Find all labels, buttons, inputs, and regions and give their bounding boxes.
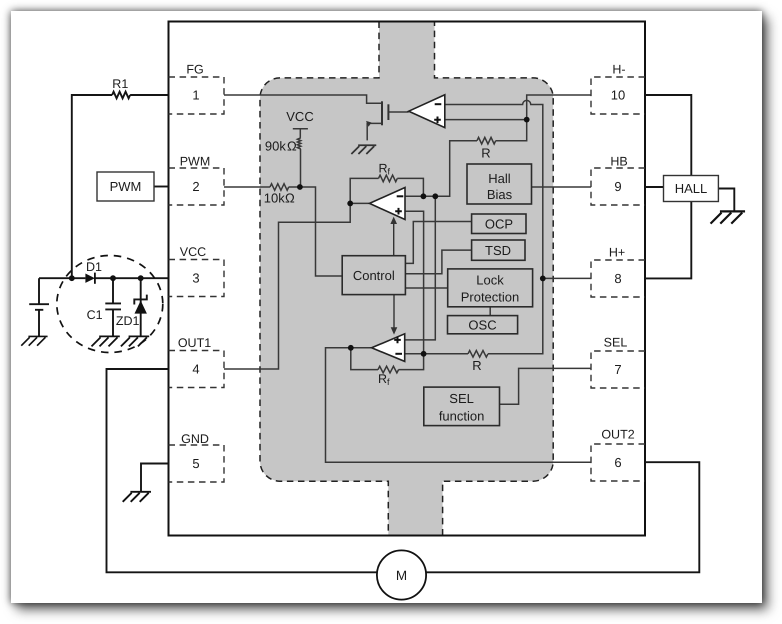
wire Control to OCP [405, 222, 471, 264]
ground (battery) [21, 336, 47, 345]
svg-text:H+: H+ [609, 246, 625, 260]
svg-text:D1: D1 [86, 260, 102, 274]
wire U2 output to OUT1 pin4 [224, 203, 370, 369]
node: H- / U1 plus [524, 117, 530, 123]
pin 2 PWM [169, 155, 225, 206]
svg-text:9: 9 [614, 179, 621, 194]
wire SEL function to pin 7 [500, 368, 592, 404]
node: U2 output [347, 201, 353, 207]
wire U1 plus input to H- node [445, 119, 527, 121]
SEL function block [424, 387, 500, 426]
svg-text:HB: HB [610, 155, 627, 169]
zener ZD1 triangle [135, 301, 147, 314]
resistor 10kohm [270, 184, 289, 191]
OCP block [472, 214, 526, 234]
wire R1 down to VCC rail [72, 95, 112, 278]
svg-text:GND: GND [181, 432, 209, 446]
op-amp U3 (output amp 2) [372, 334, 405, 362]
svg-text:VCC: VCC [180, 245, 206, 259]
wire 90k to junction [300, 149, 302, 187]
internal circuitry region (gray die area) [260, 22, 553, 536]
svg-text:OUT2: OUT2 [601, 428, 634, 442]
wire pin4 OUT1 to motor (left loop) [107, 369, 377, 572]
svg-text:VCC: VCC [286, 109, 313, 124]
wire R to U2 minus node [405, 141, 477, 197]
wire Control to Lock Protection [405, 287, 447, 289]
node: U3 output [348, 345, 354, 351]
wire Hall Bias to pin 9 [532, 186, 592, 188]
pin 9 HB [591, 155, 645, 206]
wire FET source to ground [367, 123, 382, 140]
svg-text:Protection: Protection [461, 290, 520, 305]
diode D1 [85, 273, 95, 284]
wire pin1 to R1 [130, 94, 168, 96]
svg-text:M: M [396, 568, 407, 583]
IC package outline [169, 22, 646, 536]
capacitor C1 [105, 278, 121, 336]
wire pin8 H+ to HALL bottom [645, 202, 691, 279]
pin 10 H- [591, 63, 645, 115]
transistor Q1 (FG open-drain FET) [366, 101, 388, 127]
wire VCC rail [39, 277, 169, 279]
svg-text:10k: 10k [264, 191, 285, 206]
op-amp U2 (output amp 1) [370, 188, 406, 220]
wire U2 plus input down to U3 minus node and Rf [399, 211, 424, 369]
wire H+ node to pin 8 [543, 277, 591, 279]
svg-text:Ω: Ω [285, 191, 295, 206]
svg-text:R: R [472, 358, 481, 373]
svg-text:PWM: PWM [180, 155, 211, 169]
node: U2 minus branch [432, 193, 438, 199]
svg-text:Ω: Ω [287, 139, 297, 154]
wire pin10 H- down to plus node and R [496, 95, 591, 141]
HALL sensor box [664, 176, 719, 202]
wire pin9 to HALL [645, 186, 664, 188]
wire U3 output to OUT2 pin6 [326, 348, 592, 462]
svg-text:function: function [439, 409, 485, 424]
svg-text:Control: Control [353, 268, 395, 283]
wire pin2 to 10k [224, 186, 270, 188]
svg-text:1: 1 [192, 88, 199, 103]
VCC terminal [293, 129, 308, 138]
node: 10k/90k junction [297, 184, 303, 190]
node: C1 junction [110, 275, 116, 281]
pin 3 VCC [169, 245, 225, 297]
TSD block [472, 240, 525, 260]
svg-text:4: 4 [192, 362, 199, 377]
svg-text:90k: 90k [265, 139, 286, 154]
pin 5 GND [169, 432, 225, 482]
svg-text:7: 7 [614, 362, 621, 377]
svg-text:R: R [481, 146, 490, 161]
svg-text:Bias: Bias [487, 187, 513, 202]
pin 4 OUT1 [169, 336, 225, 388]
svg-text:Lock: Lock [476, 273, 504, 288]
svg-text:OUT1: OUT1 [178, 336, 211, 350]
ground (HALL) [711, 211, 746, 223]
svg-text:H-: H- [612, 63, 625, 77]
wire PWM box to pin2 [154, 186, 169, 188]
wire pin6 OUT2 to motor (right loop) [426, 462, 699, 572]
svg-text:ZD1: ZD1 [116, 314, 140, 328]
OSC block [448, 316, 518, 334]
wire 10k junction to Control [289, 187, 343, 276]
svg-text:10: 10 [611, 88, 625, 103]
wire Lock Protection to OSC [489, 307, 491, 316]
motor M [377, 550, 426, 599]
pin 6 OUT2 [591, 428, 645, 482]
wire pin10 H- to HALL top [645, 95, 691, 176]
svg-text:8: 8 [614, 271, 621, 286]
control arrow to U3 [393, 295, 395, 328]
control arrow to U2 [390, 217, 397, 335]
dashed circle around D1/C1/ZD1 [57, 256, 163, 353]
svg-text:SEL: SEL [449, 391, 474, 406]
resistor R1 [112, 92, 130, 99]
wire Rf to U3 output node [351, 348, 378, 370]
Control block [342, 256, 405, 295]
wire U2 minus node down to U3 plus input [405, 196, 436, 340]
resistor 90kohm [297, 138, 300, 149]
svg-text:OSC: OSC [468, 318, 496, 333]
ground (C1) [92, 336, 120, 346]
svg-text:R1: R1 [112, 77, 128, 91]
svg-text:3: 3 [192, 271, 199, 286]
svg-text:5: 5 [192, 456, 199, 471]
battery/supply capacitor [29, 278, 49, 336]
wire Control to TSD [405, 250, 471, 274]
svg-text:PWM: PWM [110, 179, 142, 194]
wire pin5 GND to ground [141, 464, 169, 492]
pin 8 H+ [591, 246, 645, 298]
node: R1/VCC rail junction [69, 275, 75, 281]
pin 1 FG [169, 63, 225, 115]
wire Rf top feedback loop [350, 178, 423, 203]
resistor R (bottom, to U3 minus) [468, 351, 488, 358]
Lock Protection block [448, 269, 533, 307]
PWM source box [97, 172, 154, 201]
pin 7 SEL [591, 336, 645, 389]
svg-text:Hall: Hall [488, 171, 511, 186]
svg-text:FG: FG [186, 63, 203, 77]
svg-text:2: 2 [192, 179, 199, 194]
Hall Bias block [467, 164, 532, 204]
node: ZD1 junction [138, 275, 144, 281]
svg-text:C1: C1 [87, 308, 103, 322]
svg-text:6: 6 [614, 455, 621, 470]
resistor R (top, hysteresis) [477, 137, 496, 144]
wire U1 minus input to H+ vertical (with hop) [445, 100, 543, 353]
svg-text:TSD: TSD [485, 243, 511, 258]
wire gate to comparator output [388, 111, 408, 113]
wire HALL to ground [718, 189, 734, 212]
node: H+ at pin 8 [540, 276, 546, 282]
zener diode ZD1 [134, 278, 147, 336]
svg-text:SEL: SEL [604, 336, 628, 350]
wire FG pin1 to FET drain [224, 95, 382, 103]
resistor Rf (bottom feedback) [378, 366, 399, 373]
node: Rf top right [421, 193, 427, 199]
resistor Rf (top feedback) [379, 175, 398, 182]
wire R to U3 minus [405, 353, 468, 355]
ground (ZD1) [121, 336, 149, 346]
ground (FET source) [351, 145, 376, 154]
node: U3 minus / Rf [421, 351, 427, 357]
svg-text:HALL: HALL [675, 181, 708, 196]
svg-text:OCP: OCP [485, 217, 513, 232]
op-amp U1 (Hall comparator) [409, 95, 445, 128]
ground (GND pin5) [123, 492, 151, 502]
